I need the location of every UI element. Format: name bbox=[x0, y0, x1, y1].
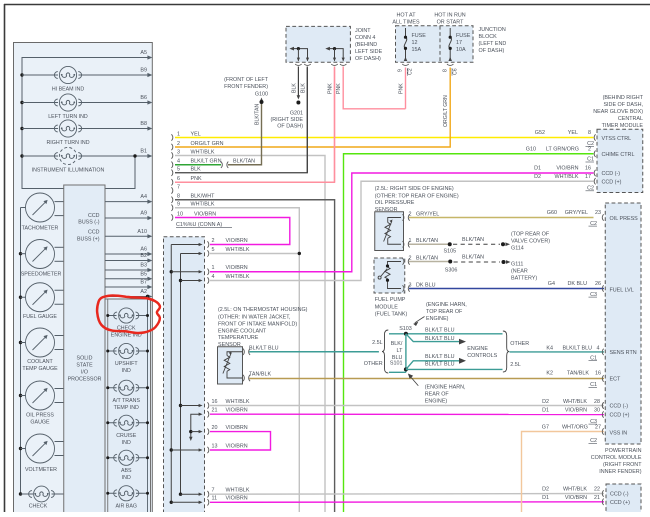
svg-text:CCD (-): CCD (-) bbox=[610, 404, 629, 410]
svg-text:CCD (+): CCD (+) bbox=[602, 180, 622, 186]
wire 3 WHT/BLK bbox=[171, 152, 172, 158]
svg-text:A4: A4 bbox=[140, 194, 147, 200]
svg-text:BLK/TAN: BLK/TAN bbox=[233, 159, 255, 165]
VIO bus in joint connector bbox=[170, 245, 172, 503]
svg-text:ENGINE): ENGINE) bbox=[425, 399, 448, 405]
svg-text:PNK: PNK bbox=[327, 83, 333, 94]
svg-text:FUEL GAUGE: FUEL GAUGE bbox=[23, 314, 57, 320]
svg-text:VALVE COVER): VALVE COVER) bbox=[511, 239, 550, 245]
svg-text:STATE: STATE bbox=[76, 363, 93, 369]
svg-text:21: 21 bbox=[594, 495, 600, 501]
svg-text:2.5L: 2.5L bbox=[510, 362, 521, 368]
svg-text:S103: S103 bbox=[399, 326, 412, 332]
pin 16 WHT/BLK bbox=[207, 402, 208, 408]
svg-text:BLK: BLK bbox=[291, 83, 297, 93]
svg-text:ORG/LT GRN: ORG/LT GRN bbox=[443, 95, 449, 127]
wire PNK right bbox=[343, 67, 405, 109]
lamp LEFT TURN IND bbox=[54, 94, 81, 111]
wire 4 BLK/LT GRN bbox=[171, 162, 172, 168]
powertrain control module U3 bbox=[605, 203, 641, 444]
wire BLK to G201 bbox=[297, 67, 299, 98]
wire BLK/LT BLU top bbox=[389, 333, 503, 335]
pin A2 bbox=[105, 296, 151, 298]
svg-text:FUEL PUMP: FUEL PUMP bbox=[375, 297, 406, 303]
svg-text:2: 2 bbox=[409, 256, 412, 262]
svg-text:16: 16 bbox=[585, 166, 591, 172]
svg-text:PNK: PNK bbox=[398, 83, 404, 94]
svg-text:TEMP GAUGE: TEMP GAUGE bbox=[22, 366, 58, 372]
svg-text:1: 1 bbox=[212, 265, 215, 271]
node hi beam tap bbox=[20, 73, 23, 76]
svg-text:(2.5L: ON THERMOSTAT HOUSING): (2.5L: ON THERMOSTAT HOUSING) bbox=[218, 307, 308, 313]
wire TAN/BLK to PCM bbox=[249, 378, 604, 380]
svg-text:WHT/BLK: WHT/BLK bbox=[226, 488, 250, 494]
splice S101 bbox=[404, 367, 408, 371]
svg-text:WHT/BLK: WHT/BLK bbox=[563, 487, 587, 493]
joint connector box C1 bbox=[164, 237, 205, 517]
svg-text:CCD (+): CCD (+) bbox=[610, 500, 630, 506]
svg-text:8: 8 bbox=[588, 130, 591, 136]
pin 13 VIO/BRN bbox=[207, 447, 208, 453]
pin B7 bbox=[105, 286, 151, 288]
svg-text:5: 5 bbox=[212, 247, 215, 253]
svg-text:JUNCTION: JUNCTION bbox=[479, 27, 506, 33]
svg-text:OIL PRESS: OIL PRESS bbox=[610, 216, 639, 222]
wire 6 PNK bbox=[171, 179, 172, 185]
svg-text:POWERTRAIN: POWERTRAIN bbox=[605, 448, 642, 454]
brace right bbox=[503, 331, 509, 372]
junction block fuse box bbox=[396, 26, 474, 62]
svg-text:VIO/BRN: VIO/BRN bbox=[556, 166, 578, 172]
svg-text:INNER FENDER): INNER FENDER) bbox=[599, 469, 641, 475]
svg-text:RIGHT TURN IND: RIGHT TURN IND bbox=[46, 140, 89, 146]
wire LT GRN/ORG bbox=[344, 154, 594, 512]
gauge OIL PRESS GAUGE bbox=[19, 394, 22, 397]
wire WHT/ORG VSS bbox=[522, 432, 605, 513]
svg-text:(2.5L: RIGHT SIDE OF ENGINE): (2.5L: RIGHT SIDE OF ENGINE) bbox=[375, 186, 454, 192]
svg-text:REAR OF: REAR OF bbox=[425, 392, 450, 398]
svg-text:3: 3 bbox=[177, 149, 180, 155]
svg-text:BLK/LT BLU: BLK/LT BLU bbox=[425, 362, 455, 368]
gauge COOLANT TEMP GAUGE bbox=[19, 341, 22, 344]
svg-text:DK BLU: DK BLU bbox=[568, 281, 588, 287]
wire 11 VIO/BRN to module bbox=[210, 501, 604, 504]
svg-text:DK BLU: DK BLU bbox=[416, 283, 436, 289]
pin 8 VTSS CTRL bbox=[594, 134, 595, 140]
svg-text:WHT/BLK: WHT/BLK bbox=[555, 174, 579, 180]
fuse F12 15A bbox=[405, 28, 407, 37]
svg-text:BATTERY): BATTERY) bbox=[511, 276, 537, 282]
pin 21 VIO/BRN bbox=[207, 411, 208, 417]
svg-text:LT: LT bbox=[397, 348, 404, 354]
ground G201 bbox=[297, 95, 301, 99]
svg-text:A2: A2 bbox=[140, 289, 147, 295]
svg-text:CENTRAL: CENTRAL bbox=[618, 116, 643, 122]
svg-text:A6: A6 bbox=[140, 247, 147, 253]
svg-text:NEAR GLOVE BOX): NEAR GLOVE BOX) bbox=[593, 109, 643, 115]
oil pressure sensor B1 bbox=[375, 212, 404, 251]
svg-text:S306: S306 bbox=[445, 268, 458, 274]
svg-text:GRY/YEL: GRY/YEL bbox=[416, 212, 439, 218]
wire GRY/YEL bbox=[409, 217, 594, 219]
node left turn tap bbox=[20, 101, 23, 104]
svg-text:WHT/BLK: WHT/BLK bbox=[563, 399, 587, 405]
svg-text:B7: B7 bbox=[140, 280, 147, 286]
stub pin 20 bbox=[189, 430, 192, 433]
svg-text:VIO/BRN: VIO/BRN bbox=[226, 496, 248, 502]
ground G114 bbox=[501, 242, 505, 246]
svg-text:GRY/YEL: GRY/YEL bbox=[565, 210, 588, 216]
svg-text:INSTRUMENT ILLUMINATION: INSTRUMENT ILLUMINATION bbox=[32, 168, 105, 174]
svg-text:GAUGE: GAUGE bbox=[30, 420, 50, 426]
svg-text:CCD: CCD bbox=[88, 229, 100, 235]
ground G111 bbox=[502, 260, 506, 264]
svg-text:BUSS (+): BUSS (+) bbox=[77, 236, 100, 242]
lamp RIGHT TURN IND bbox=[54, 120, 81, 137]
svg-text:VIO/BRN: VIO/BRN bbox=[565, 408, 587, 414]
wire dashed to G114 bbox=[453, 243, 500, 245]
svg-text:BLK/LT BLU: BLK/LT BLU bbox=[425, 327, 455, 333]
svg-text:K2: K2 bbox=[546, 371, 553, 377]
svg-text:G111: G111 bbox=[511, 262, 523, 268]
stub pin 7 bbox=[179, 493, 182, 496]
svg-text:4: 4 bbox=[597, 345, 600, 351]
svg-text:BLK/TAN: BLK/TAN bbox=[416, 238, 438, 244]
svg-text:ENGINE): ENGINE) bbox=[426, 316, 449, 322]
svg-text:D1: D1 bbox=[534, 166, 541, 172]
splice bus vertical bbox=[405, 334, 407, 373]
svg-text:B5: B5 bbox=[140, 271, 147, 277]
svg-text:YEL: YEL bbox=[191, 131, 201, 137]
svg-text:16: 16 bbox=[212, 399, 218, 405]
pin B2 bbox=[105, 260, 151, 262]
svg-text:TIMER MODULE: TIMER MODULE bbox=[602, 123, 644, 129]
svg-text:PNK: PNK bbox=[336, 83, 342, 94]
svg-text:VIO/BRN: VIO/BRN bbox=[226, 425, 248, 431]
svg-text:OIL PRESSURE: OIL PRESSURE bbox=[375, 200, 415, 206]
svg-text:CCD (+): CCD (+) bbox=[610, 413, 630, 419]
wire B1 bbox=[22, 155, 58, 157]
stub pin 21 bbox=[191, 414, 201, 438]
wire 7 WHT/BLK to module bbox=[210, 493, 604, 496]
svg-text:LT GRN/ORG: LT GRN/ORG bbox=[546, 147, 579, 153]
brace left bbox=[382, 330, 388, 373]
svg-text:BLK/TAN: BLK/TAN bbox=[255, 104, 261, 125]
svg-text:12: 12 bbox=[412, 40, 418, 46]
gauge bus bbox=[20, 208, 22, 495]
svg-text:B1: B1 bbox=[140, 149, 147, 155]
pin B5 bbox=[105, 278, 151, 280]
wire 2 ORG/LT GRN bbox=[171, 144, 172, 150]
svg-text:A9: A9 bbox=[140, 211, 147, 217]
lamp AIR BAG bbox=[108, 492, 117, 494]
svg-text:2: 2 bbox=[588, 147, 591, 153]
wire B9 bbox=[22, 74, 58, 76]
svg-text:TAN/BLK: TAN/BLK bbox=[249, 372, 271, 378]
svg-text:G10: G10 bbox=[526, 147, 536, 153]
svg-text:6: 6 bbox=[177, 176, 180, 182]
svg-text:OF DASH): OF DASH) bbox=[479, 48, 505, 54]
svg-text:(RIGHT FRONT: (RIGHT FRONT bbox=[603, 462, 642, 468]
svg-text:B8: B8 bbox=[140, 121, 147, 127]
svg-text:LEFT SIDE: LEFT SIDE bbox=[355, 49, 383, 55]
pin A10 bbox=[105, 235, 151, 237]
svg-text:OIL PRESS: OIL PRESS bbox=[26, 413, 54, 419]
svg-text:B9: B9 bbox=[140, 68, 147, 74]
svg-text:TEMPERATURE: TEMPERATURE bbox=[218, 335, 259, 341]
svg-text:BLK/LT BLU: BLK/LT BLU bbox=[249, 346, 279, 352]
svg-text:VIO/BRN: VIO/BRN bbox=[226, 408, 248, 414]
wire 20-13 VIO/BRN loop bbox=[210, 432, 271, 450]
svg-text:17: 17 bbox=[585, 174, 591, 180]
wire PNK left bbox=[334, 67, 336, 183]
svg-text:23: 23 bbox=[595, 210, 601, 216]
lamp left bus bbox=[107, 299, 109, 512]
svg-text:27: 27 bbox=[595, 425, 601, 431]
wire BLK/LT BLU bottom bbox=[389, 371, 406, 373]
wire 1 YEL bbox=[171, 134, 172, 140]
svg-text:B3: B3 bbox=[140, 263, 147, 269]
svg-text:BLK/: BLK/ bbox=[391, 341, 403, 347]
svg-text:VIO/BRN: VIO/BRN bbox=[226, 443, 248, 449]
svg-text:9: 9 bbox=[177, 202, 180, 208]
pin 1 BLK/TAN bbox=[403, 241, 404, 247]
lamp ABS IND bbox=[108, 457, 117, 459]
lamp CHECK ENGINE IND bbox=[108, 315, 117, 317]
svg-text:BLK/LT BLU: BLK/LT BLU bbox=[563, 345, 593, 351]
module bottom right bbox=[606, 484, 641, 516]
svg-text:OF DASH): OF DASH) bbox=[277, 124, 303, 130]
pin 11 VIO/BRN bbox=[207, 499, 208, 505]
svg-text:26: 26 bbox=[595, 281, 601, 287]
svg-text:VIO/BRN: VIO/BRN bbox=[565, 495, 587, 501]
node B1 junction bbox=[133, 154, 136, 157]
svg-text:D2: D2 bbox=[542, 399, 549, 405]
lamp right bus bbox=[147, 297, 149, 513]
fuel pump module B2 bbox=[374, 258, 405, 293]
svg-text:1: 1 bbox=[177, 131, 180, 137]
svg-text:ECT: ECT bbox=[610, 377, 621, 383]
stub pin 13 bbox=[170, 448, 173, 451]
svg-text:(FUEL TANK): (FUEL TANK) bbox=[375, 312, 408, 318]
svg-text:COOLANT: COOLANT bbox=[27, 359, 53, 365]
pin 2 GRY/YEL bbox=[403, 214, 404, 220]
svg-text:FRONT FENDER): FRONT FENDER) bbox=[224, 84, 268, 90]
joint connector box behind dash bbox=[286, 26, 350, 62]
stub pin 16 bbox=[179, 404, 182, 407]
svg-text:A/T TRANS: A/T TRANS bbox=[113, 398, 141, 404]
lamp A/T TRANS TEMP IND bbox=[108, 387, 117, 389]
svg-text:A5: A5 bbox=[140, 50, 147, 56]
wire BLK/TAN to G100 bbox=[228, 103, 262, 165]
svg-text:IND: IND bbox=[122, 475, 131, 481]
svg-text:ENGINE COOLANT: ENGINE COOLANT bbox=[218, 328, 267, 334]
svg-text:S101: S101 bbox=[390, 360, 403, 366]
svg-text:HOT AT: HOT AT bbox=[397, 13, 417, 19]
pin BLK/LT BLU bbox=[243, 349, 244, 355]
svg-text:WHT/BLK: WHT/BLK bbox=[226, 399, 250, 405]
svg-text:WHT/ORG: WHT/ORG bbox=[562, 425, 588, 431]
svg-text:CHIME CTRL: CHIME CTRL bbox=[602, 152, 635, 158]
svg-text:3: 3 bbox=[409, 283, 412, 289]
svg-text:CCD (-): CCD (-) bbox=[610, 492, 629, 498]
svg-text:CONTROLS: CONTROLS bbox=[467, 353, 497, 359]
svg-text:28: 28 bbox=[594, 399, 600, 405]
svg-text:A10: A10 bbox=[137, 229, 147, 235]
svg-text:OR START: OR START bbox=[437, 20, 464, 26]
svg-text:10: 10 bbox=[177, 211, 183, 217]
wire BLK/TAN to S306 bbox=[409, 261, 450, 263]
svg-text:9: 9 bbox=[398, 69, 404, 72]
pink bus in box bbox=[328, 49, 343, 61]
splice S306 bbox=[448, 260, 452, 264]
svg-text:MODULE: MODULE bbox=[375, 304, 398, 310]
svg-text:8: 8 bbox=[177, 194, 180, 200]
svg-text:4: 4 bbox=[212, 274, 215, 280]
solid state I/O processor U1 bbox=[64, 185, 105, 516]
svg-text:WHT/BLK: WHT/BLK bbox=[226, 274, 250, 280]
svg-text:(LEFT END: (LEFT END bbox=[479, 41, 507, 47]
svg-text:BLK/TAN: BLK/TAN bbox=[462, 237, 484, 243]
svg-text:B6: B6 bbox=[140, 95, 147, 101]
pin 7 empty bbox=[171, 187, 172, 193]
pin 16 CCD minus bbox=[594, 170, 595, 176]
svg-text:YEL: YEL bbox=[568, 130, 578, 136]
wire B6 bbox=[22, 102, 58, 104]
svg-text:G100: G100 bbox=[255, 92, 268, 98]
svg-text:(NEAR: (NEAR bbox=[511, 269, 528, 275]
svg-text:2.5L: 2.5L bbox=[372, 340, 383, 346]
svg-text:ALL TIMES: ALL TIMES bbox=[392, 20, 420, 26]
svg-text:BLK/LT GRN: BLK/LT GRN bbox=[191, 159, 222, 165]
svg-text:LEFT TURN IND: LEFT TURN IND bbox=[48, 114, 88, 120]
svg-text:VOLTMETER: VOLTMETER bbox=[25, 467, 57, 473]
svg-text:8: 8 bbox=[442, 69, 448, 72]
annotation red circle around CHECK ENGINE IND bbox=[97, 295, 160, 333]
svg-text:21: 21 bbox=[212, 408, 218, 414]
svg-text:G201: G201 bbox=[290, 111, 303, 117]
svg-text:22: 22 bbox=[594, 487, 600, 493]
svg-text:TOP REAR OF: TOP REAR OF bbox=[426, 309, 463, 315]
svg-text:10A: 10A bbox=[456, 47, 466, 53]
pin A5 bbox=[147, 55, 152, 59]
svg-text:7: 7 bbox=[212, 488, 215, 494]
wire 16 WHT/BLK to PCM bbox=[210, 405, 604, 407]
svg-text:OTHER: OTHER bbox=[364, 361, 383, 367]
svg-text:BLK: BLK bbox=[191, 167, 202, 173]
lamp INSTRUMENT ILLUMINATION bbox=[54, 147, 81, 164]
svg-text:(OTHER: TOP REAR OF ENGINE): (OTHER: TOP REAR OF ENGINE) bbox=[375, 193, 459, 199]
svg-text:CCD (-): CCD (-) bbox=[602, 171, 621, 177]
svg-text:SPEEDOMETER: SPEEDOMETER bbox=[21, 272, 62, 278]
svg-text:C2: C2 bbox=[408, 68, 414, 75]
svg-text:WHT/BLK: WHT/BLK bbox=[191, 149, 215, 155]
wire 21 VIO/BRN to PCM bbox=[210, 413, 604, 415]
node right turn tap bbox=[20, 127, 23, 130]
svg-text:30: 30 bbox=[594, 408, 600, 414]
pin 2 CHIME CTRL bbox=[594, 151, 595, 157]
svg-text:I/O: I/O bbox=[81, 370, 88, 376]
svg-text:TAN/BLK: TAN/BLK bbox=[567, 371, 589, 377]
pin 3 DK BLU bbox=[403, 285, 404, 291]
svg-text:FUSE: FUSE bbox=[412, 33, 427, 39]
pin 20 VIO/BRN bbox=[207, 428, 208, 434]
svg-text:FRONT OF INTAKE MANIFOLD): FRONT OF INTAKE MANIFOLD) bbox=[218, 322, 297, 328]
svg-text:VIO/BRN: VIO/BRN bbox=[226, 265, 248, 271]
wire PNK from fuse 12 bbox=[405, 68, 407, 109]
svg-text:VIO/BRN: VIO/BRN bbox=[226, 238, 248, 244]
wire 10 VIO/BRN bbox=[171, 214, 172, 220]
svg-text:CONTROL MODULE: CONTROL MODULE bbox=[591, 455, 642, 461]
splice S105 bbox=[448, 242, 452, 246]
svg-text:HOT IN RUN: HOT IN RUN bbox=[434, 13, 465, 19]
fuse F17 10A bbox=[449, 28, 451, 37]
wire 5 WHT/BLK to bus bbox=[210, 253, 299, 255]
gauge FUEL GAUGE bbox=[19, 296, 22, 299]
wire to engine controls lower bbox=[406, 361, 459, 370]
svg-text:FUEL LVL: FUEL LVL bbox=[610, 288, 634, 294]
svg-text:UPSHIFT: UPSHIFT bbox=[115, 361, 138, 367]
svg-text:(OTHER: IN WATER JACKET,: (OTHER: IN WATER JACKET, bbox=[218, 314, 291, 320]
svg-text:5: 5 bbox=[177, 167, 180, 173]
svg-text:SOLID: SOLID bbox=[77, 356, 93, 362]
svg-text:IND: IND bbox=[122, 440, 131, 446]
wire WHT/BLK CCD plus bbox=[210, 181, 594, 280]
svg-text:16: 16 bbox=[595, 371, 601, 377]
svg-text:CCD: CCD bbox=[88, 213, 100, 219]
svg-text:D2: D2 bbox=[534, 174, 541, 180]
svg-text:BLK/TAN: BLK/TAN bbox=[416, 256, 438, 262]
svg-text:15A: 15A bbox=[412, 47, 422, 53]
wire 9 WHT/BLK bbox=[171, 205, 172, 211]
svg-text:ABS: ABS bbox=[121, 468, 132, 474]
svg-text:C6: C6 bbox=[452, 68, 458, 75]
svg-text:VIO/BRN: VIO/BRN bbox=[194, 211, 216, 217]
svg-text:G114: G114 bbox=[511, 246, 524, 252]
stub pin 11 bbox=[170, 501, 173, 504]
lamp CHECK GAUGES bbox=[19, 492, 22, 495]
svg-text:OTHER: OTHER bbox=[510, 341, 529, 347]
svg-text:PROCESSOR: PROCESSOR bbox=[68, 377, 102, 383]
lamp UPSHIFT IND bbox=[108, 350, 117, 352]
wire VIO/BRN CCD minus bbox=[210, 173, 594, 272]
WHT bus in joint connector bbox=[180, 254, 182, 495]
pin B3 bbox=[105, 269, 151, 271]
svg-text:IND: IND bbox=[122, 368, 131, 374]
svg-text:BUSS (-): BUSS (-) bbox=[78, 220, 99, 226]
pin A6 bbox=[105, 253, 151, 255]
svg-text:WHT/BLK: WHT/BLK bbox=[226, 247, 250, 253]
svg-text:13: 13 bbox=[212, 443, 218, 449]
svg-text:1: 1 bbox=[409, 238, 412, 244]
arrow to S103 bbox=[415, 317, 425, 323]
wire to engine controls upper bbox=[406, 334, 459, 342]
svg-text:K4: K4 bbox=[546, 345, 553, 351]
svg-text:(RIGHT SIDE: (RIGHT SIDE bbox=[270, 117, 303, 123]
svg-text:(ENGINE HARN,: (ENGINE HARN, bbox=[426, 302, 467, 308]
svg-text:B2: B2 bbox=[140, 253, 147, 259]
svg-text:G4: G4 bbox=[548, 281, 555, 287]
lamp CRUISE IND bbox=[108, 422, 117, 424]
pin 1 VIO/BRN bbox=[207, 269, 208, 275]
arrow to S101 bbox=[410, 376, 419, 386]
node A2 junction bbox=[146, 295, 149, 298]
svg-text:CRUISE: CRUISE bbox=[116, 433, 136, 439]
svg-text:TEMP IND: TEMP IND bbox=[114, 405, 139, 411]
svg-text:BLOCK: BLOCK bbox=[479, 34, 498, 40]
svg-text:(FRONT OF LEFT: (FRONT OF LEFT bbox=[224, 77, 269, 83]
gauge TACHOMETER bbox=[21, 207, 26, 209]
